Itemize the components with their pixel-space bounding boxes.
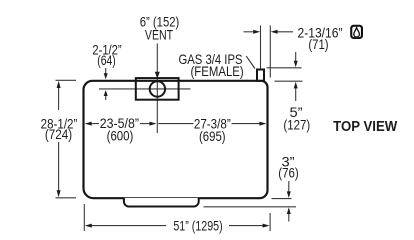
vent rectangle bbox=[136, 78, 179, 100]
vent horizontal centerline bbox=[99, 88, 191, 90]
vent circle bbox=[150, 81, 165, 96]
svg-text:VENT: VENT bbox=[145, 27, 174, 43]
svg-text:(64): (64) bbox=[97, 52, 116, 68]
gas fitting bbox=[257, 70, 264, 81]
dim 28-1/2 up arrow bbox=[57, 81, 61, 88]
svg-text:51” (1295): 51” (1295) bbox=[173, 218, 222, 234]
dim 23-5/8 right arrow at vent centerline bbox=[149, 122, 156, 126]
dim 28-1/2 top extension line bbox=[56, 79, 77, 81]
dim 2-13/16 left tail and arrow bbox=[244, 31, 255, 33]
dim 23-5/8 line right segment bbox=[140, 123, 150, 125]
dim 2-13/16 right extension line bbox=[269, 26, 271, 78]
svg-text:TOP VIEW: TOP VIEW bbox=[333, 119, 397, 135]
vent leader line from VENT text bbox=[156, 44, 158, 73]
vent leader arrowhead bbox=[155, 72, 160, 79]
dim 28-1/2 down arrow bbox=[57, 190, 61, 197]
svg-text:(724): (724) bbox=[45, 126, 72, 142]
tank outline (top view of heater) bbox=[84, 81, 268, 198]
dim 2-13/16 right tail and arrow bbox=[277, 31, 294, 33]
dim 3 up arrow bbox=[288, 213, 290, 222]
dim 5 bottom extension line (tank top level) bbox=[275, 80, 303, 82]
svg-text:(695): (695) bbox=[199, 128, 226, 144]
dim 51 line left segment with arrow bbox=[91, 225, 166, 227]
dim 3 bottom extension line (bracket bottom level) bbox=[204, 206, 297, 208]
dim 28-1/2 vertical line lower bbox=[58, 142, 60, 191]
dim 27-3/8 right arrow at tank edge bbox=[259, 122, 266, 126]
gas flame icon bbox=[350, 25, 363, 39]
dim 5 up arrow bbox=[295, 88, 297, 102]
svg-text:(71): (71) bbox=[308, 36, 328, 52]
dim 51 left extension line bbox=[83, 204, 85, 231]
svg-text:(600): (600) bbox=[107, 128, 134, 144]
dim 27-3/8 line right segment bbox=[232, 123, 261, 125]
dim 2-13/16 left extension line bbox=[260, 26, 262, 69]
dim 51 right extension line bbox=[269, 213, 271, 231]
svg-text:(76): (76) bbox=[278, 165, 299, 181]
dim 28-1/2 bottom extension line bbox=[56, 197, 77, 199]
svg-text:(FEMALE): (FEMALE) bbox=[191, 63, 244, 79]
dim 27-3/8 line left segment bbox=[158, 123, 193, 125]
dim 23-5/8 left arrow at tank edge bbox=[85, 122, 92, 126]
dim 2-1/2 down arrow bbox=[105, 68, 107, 75]
dim 28-1/2 vertical line upper bbox=[58, 87, 60, 110]
dim 5 down arrow bbox=[295, 52, 297, 62]
svg-text:(127): (127) bbox=[283, 117, 310, 133]
vent vertical centerline (below rect) bbox=[156, 79, 158, 133]
dim 51 line right segment with arrow bbox=[229, 225, 264, 227]
dim 3 down arrow bbox=[288, 181, 290, 193]
dim 2-1/2 up arrow bbox=[105, 95, 107, 100]
bottom bracket bbox=[124, 198, 199, 207]
dim 5 top extension line (gas fitting top level) bbox=[267, 67, 302, 69]
gas leader line bbox=[246, 56, 255, 68]
dim 3 top extension line (tank bottom level) bbox=[272, 198, 292, 200]
